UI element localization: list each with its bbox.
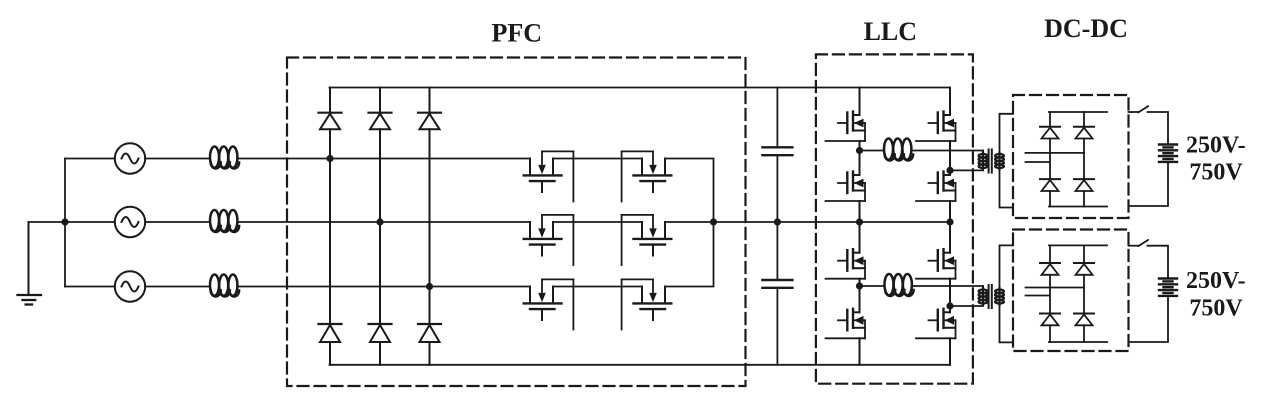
- wire switch row 1 to midpoint: [665, 159, 714, 223]
- wire LLC left leg seg1: [859, 88, 861, 116]
- wire source Vc to inductor Lc: [145, 286, 208, 288]
- wire battery 1 return: [1130, 162, 1168, 206]
- wire C1 to midpoint: [776, 155, 778, 222]
- node LLC2 right midpoint: [946, 302, 953, 309]
- inductor Lb: [210, 210, 239, 232]
- wire Lr2 to T2: [913, 285, 983, 287]
- wire LLC1 to Lr1: [860, 150, 883, 152]
- wire bridge 2 input lower: [1026, 295, 1051, 297]
- MOSFET Q5: [826, 249, 866, 279]
- wire bus to source Vb: [65, 221, 115, 223]
- node phase c - leg 3: [426, 283, 433, 290]
- wire bridge 2 leg b upper: [1083, 245, 1085, 263]
- MOSFET S3b: [622, 279, 672, 329]
- wire LLC right leg seg2: [949, 141, 951, 175]
- MOSFET Q7: [916, 249, 956, 279]
- wire source Vb to inductor Lb: [145, 221, 208, 223]
- wire LLC left leg seg3: [859, 201, 861, 253]
- node LLC1 left midpoint: [856, 147, 863, 154]
- MOSFET Q1: [826, 112, 866, 142]
- MOSFET Q6: [826, 309, 866, 339]
- transformer T1 secondary: [995, 114, 1013, 208]
- wire LLC2 to Lr2: [860, 285, 884, 287]
- transformer T1 core: [989, 150, 992, 173]
- wire bridge 2 leg b middle: [1083, 275, 1085, 314]
- MOSFET Q8: [916, 309, 956, 339]
- wire rectifier leg 2 upper: [379, 88, 381, 113]
- wire rectifier leg 1 lower: [329, 342, 331, 365]
- wire DC top bus: [330, 87, 951, 89]
- diode DR2a1: [1040, 263, 1060, 275]
- wire rectifier leg 3 upper: [429, 88, 431, 113]
- DC-DC module 2 dashed box: [1013, 230, 1129, 352]
- wire bridge 2 leg a middle: [1049, 275, 1051, 314]
- node phase b - leg 2: [376, 218, 383, 225]
- wire bridge 1 top rail: [1049, 111, 1107, 113]
- diode DR1a2: [1040, 179, 1060, 191]
- wire LLC right leg seg5: [949, 338, 951, 365]
- AC source Va: [115, 143, 145, 173]
- wire LLC left leg seg5: [859, 338, 861, 365]
- wire between S2a and S2b: [553, 221, 642, 223]
- transformer T1 primary: [950, 151, 987, 171]
- node left leg - mid rail: [856, 218, 863, 225]
- wire LLC left leg seg2: [859, 141, 861, 175]
- diode DR1b1: [1074, 127, 1094, 139]
- wire rectifier leg 3 middle: [429, 129, 431, 324]
- svg-text:DC-DC: DC-DC: [1044, 14, 1128, 43]
- node LLC1 right midpoint: [946, 167, 953, 174]
- wire bridge 1 leg b lower: [1083, 191, 1085, 207]
- wire bridge 1 leg b middle: [1083, 139, 1085, 180]
- diode D3 top: [418, 113, 441, 130]
- svg-text:250V-: 250V-: [1186, 268, 1246, 294]
- MOSFET S1b: [622, 151, 672, 201]
- wire output 2 to battery: [1148, 246, 1169, 278]
- diode DR2a2: [1040, 314, 1060, 326]
- diode DR1b2: [1074, 179, 1094, 191]
- node LLC2 left midpoint: [856, 282, 863, 289]
- wire bridge 2 input upper: [1026, 287, 1085, 289]
- wire between S1a and S1b: [553, 158, 642, 160]
- wire bridge 1 input upper: [1026, 152, 1085, 154]
- wire output 1 to battery: [1148, 112, 1169, 144]
- wire rectifier leg 1 upper: [329, 88, 331, 113]
- transformer T2 core: [989, 285, 992, 308]
- wire rectifier leg 2 lower: [379, 342, 381, 365]
- inductor La: [210, 147, 239, 169]
- node neutral junction: [61, 218, 68, 225]
- wire bridge 1 leg a upper: [1049, 112, 1051, 127]
- wire ground to neutral node: [29, 221, 66, 223]
- wire output 1 top: [1129, 111, 1139, 113]
- node DC-link midpoint: [774, 218, 781, 225]
- capacitor C2: [762, 280, 792, 288]
- wire bridge 2 leg a lower: [1049, 325, 1051, 342]
- inductor Lr1: [884, 139, 913, 161]
- MOSFET S2a: [524, 215, 574, 265]
- wire bus to source Va: [65, 158, 115, 160]
- AC source Vb: [115, 207, 145, 237]
- svg-text:PFC: PFC: [492, 19, 543, 48]
- section label PFC: [492, 19, 543, 48]
- DC-DC module 1 dashed box: [1013, 95, 1129, 218]
- wire rectifier leg 3 lower: [429, 342, 431, 365]
- svg-text:750V: 750V: [1189, 159, 1243, 185]
- node phase a - leg 1: [326, 155, 333, 162]
- MOSFET S3a: [524, 279, 574, 329]
- diode D4 bottom: [319, 324, 342, 342]
- battery E1: [1159, 145, 1177, 162]
- wire midpoint rail: [665, 221, 950, 223]
- diode DR1a1: [1040, 127, 1060, 139]
- svg-text:250V-: 250V-: [1186, 132, 1246, 158]
- wire bridge 1 leg b upper: [1083, 112, 1085, 127]
- wire battery 2 return: [1130, 296, 1168, 342]
- wire output 2 top: [1129, 245, 1139, 247]
- wire switch row 3 to midpoint: [665, 222, 714, 287]
- wire rectifier leg 1 middle: [329, 129, 331, 324]
- diode DR2b2: [1074, 314, 1094, 326]
- wire bridge 1 bottom rail: [1049, 206, 1107, 208]
- capacitor C1: [762, 147, 792, 155]
- switch K2: [1139, 240, 1149, 246]
- wire DC-link upper: [776, 88, 778, 148]
- wire phase b to rectifier and switch: [239, 221, 531, 223]
- switch K1: [1139, 106, 1149, 112]
- transformer T2 secondary: [995, 245, 1013, 342]
- wire phase c to rectifier and switch: [239, 286, 531, 288]
- diode D2 top: [369, 113, 392, 130]
- AC source Vc: [115, 271, 145, 301]
- node switch midpoint junction: [710, 218, 717, 225]
- wire LLC right leg seg4: [949, 279, 951, 313]
- diode D6 bottom: [418, 324, 441, 342]
- wire LLC left leg seg4: [859, 279, 861, 313]
- inductor Lc: [210, 275, 239, 297]
- section label DC-DC: [1044, 14, 1128, 43]
- svg-text:750V: 750V: [1189, 295, 1243, 321]
- diode D5 bottom: [369, 324, 392, 342]
- wire bridge 2 leg b lower: [1083, 325, 1085, 342]
- wire bridge 1 leg a lower: [1049, 191, 1051, 207]
- wire phase a to rectifier and switch: [239, 158, 531, 160]
- node right leg - mid rail: [946, 218, 953, 225]
- label battery 2 voltage: [1186, 268, 1246, 321]
- wire bridge 1 input lower: [1026, 161, 1051, 163]
- wire source Va to inductor La: [145, 158, 208, 160]
- diode DR2b1: [1074, 263, 1094, 275]
- wire bridge 2 leg a upper: [1049, 245, 1051, 263]
- wire between S3a and S3b: [553, 286, 642, 288]
- wire bus to source Vc: [65, 286, 115, 288]
- MOSFET Q4: [916, 172, 956, 202]
- section label LLC: [864, 17, 917, 46]
- MOSFET S2b: [622, 215, 672, 265]
- svg-text:LLC: LLC: [864, 17, 917, 46]
- wire LLC right leg seg1: [949, 88, 951, 116]
- wire LLC right leg seg3: [949, 201, 951, 253]
- diode D1 top: [319, 113, 342, 130]
- LLC dashed boundary box: [816, 54, 973, 383]
- MOSFET S1a: [524, 151, 574, 201]
- wire DC-link lower: [776, 288, 778, 365]
- PFC dashed boundary box: [287, 58, 746, 387]
- wire rectifier leg 2 middle: [379, 129, 381, 324]
- wire bridge 2 bottom rail: [1049, 341, 1107, 343]
- wire DC bottom bus: [330, 364, 951, 366]
- wire midpoint to C2: [776, 222, 778, 280]
- MOSFET Q3: [916, 112, 956, 142]
- wire Lr1 to T1: [913, 150, 984, 152]
- neutral bus vertical: [64, 159, 66, 287]
- label battery 1 voltage: [1186, 132, 1246, 185]
- inductor Lr2: [885, 274, 914, 296]
- transformer T2 primary: [950, 286, 987, 306]
- battery E2: [1159, 279, 1177, 296]
- MOSFET Q2: [826, 172, 866, 202]
- ground: [18, 222, 42, 305]
- wire bridge 1 leg a middle: [1049, 139, 1051, 180]
- wire bridge 2 top rail: [1049, 244, 1107, 246]
